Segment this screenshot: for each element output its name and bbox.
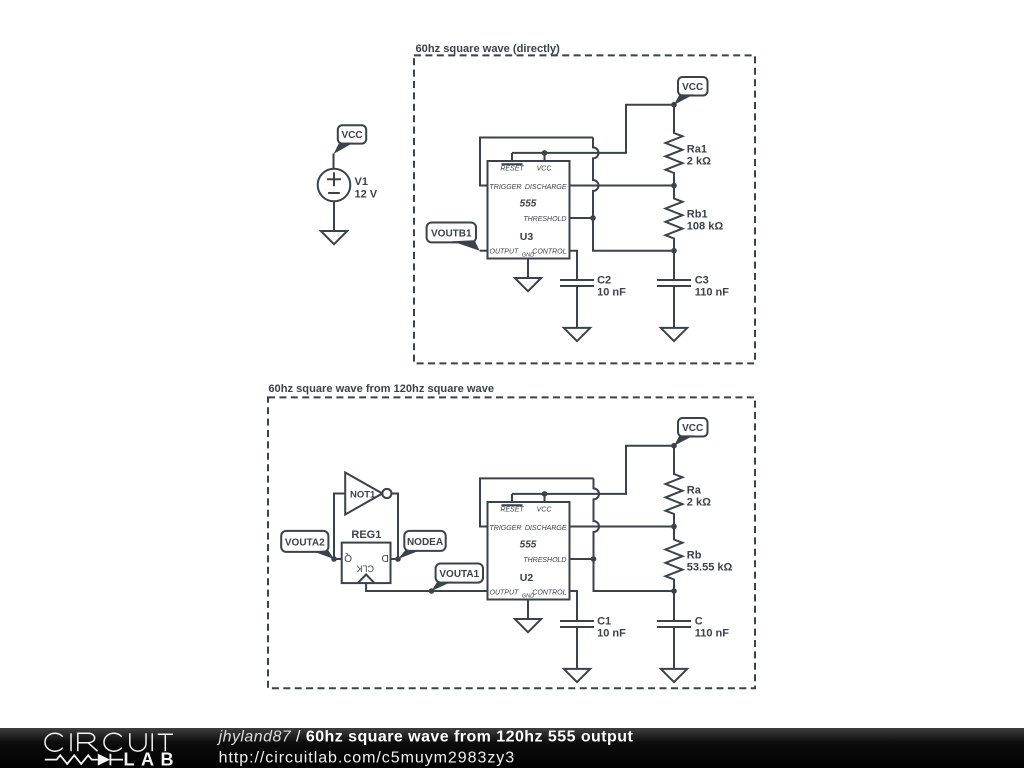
capacitor C bbox=[657, 591, 691, 669]
junction node Ra/Rb/discharge bbox=[671, 524, 677, 530]
wire: CONTROL to C2 bbox=[570, 251, 578, 280]
chip U2 555 timer body bbox=[488, 502, 570, 600]
svg-text:60hz square wave (directly): 60hz square wave (directly) bbox=[416, 43, 561, 55]
svg-text:Ra: Ra bbox=[687, 484, 702, 496]
junction node at VCC flag (bottom) bbox=[671, 443, 677, 449]
svg-text:VOUTA1: VOUTA1 bbox=[439, 569, 479, 580]
svg-text:Rb1: Rb1 bbox=[687, 208, 708, 220]
svg-text:53.55 kΩ: 53.55 kΩ bbox=[687, 562, 733, 574]
svg-text:NODEA: NODEA bbox=[407, 537, 443, 548]
net flag VCC (top right) bbox=[678, 77, 708, 96]
svg-text:OUTPUT: OUTPUT bbox=[490, 589, 520, 596]
svg-text:jhyland87 / 60hz square wave f: jhyland87 / 60hz square wave from 120hz … bbox=[217, 729, 634, 746]
junction node REG1 Q / NOT1 in bbox=[331, 556, 337, 562]
flip-flop REG1 body (rotated) bbox=[342, 543, 391, 584]
ground (U3 GND) bbox=[515, 278, 541, 291]
wire: NOT1 output to REG1 D bbox=[391, 494, 399, 560]
capacitor C3 bbox=[657, 251, 691, 328]
dashed section border (top) bbox=[414, 55, 755, 363]
svg-text:VCC: VCC bbox=[682, 423, 703, 434]
wire: TRIGGER loop U2 (with hops) bbox=[480, 478, 674, 591]
CircuitLab logo wordmark (thin stroked letters) bbox=[45, 733, 173, 751]
inverter NOT1 bbox=[345, 473, 382, 515]
junction node threshold bbox=[590, 215, 596, 221]
wire: NOT1 input from REG1 Q bbox=[334, 494, 345, 560]
wire: REG1 CLK to U2 OUTPUT bbox=[366, 583, 487, 591]
voltage source V1 12V bbox=[318, 169, 351, 202]
wire: V1 to ground bbox=[333, 201, 335, 231]
svg-text:CLK: CLK bbox=[356, 563, 374, 573]
junction node threshold (U2) bbox=[591, 556, 597, 562]
svg-text:VCC: VCC bbox=[537, 166, 553, 173]
svg-text:Rb: Rb bbox=[687, 549, 702, 561]
capacitor C2 bbox=[560, 280, 594, 328]
ground (U2 GND) bbox=[515, 619, 541, 632]
net flag NODEA bbox=[404, 531, 445, 551]
net flag VOUTA1 bbox=[436, 564, 483, 583]
wire: TRIGGER loop (trigger pin up and over to threshold net, with hops) bbox=[480, 138, 674, 251]
svg-text:108 kΩ: 108 kΩ bbox=[687, 221, 724, 233]
net flag VCC (bottom right) bbox=[678, 418, 708, 437]
svg-text:DISCHARGE: DISCHARGE bbox=[525, 525, 567, 532]
svg-text:REG1: REG1 bbox=[351, 529, 381, 541]
svg-text:VCC: VCC bbox=[537, 507, 553, 514]
svg-text:THRESHOLD: THRESHOLD bbox=[523, 216, 566, 223]
svg-text:12 V: 12 V bbox=[355, 188, 378, 200]
wire: THRESHOLD to vertical net bbox=[570, 217, 594, 219]
resistor Rb1 bbox=[666, 186, 683, 251]
junction node REG1 D / NOT1 out bbox=[395, 556, 401, 562]
svg-text:C2: C2 bbox=[597, 275, 611, 287]
resistor Rb bbox=[666, 527, 683, 592]
svg-text:VCC: VCC bbox=[341, 130, 362, 141]
svg-text:2 kΩ: 2 kΩ bbox=[687, 156, 711, 168]
wire: CONTROL to C1 bbox=[570, 591, 578, 621]
junction node at chip VCC pin bbox=[542, 150, 548, 156]
ground (C2) bbox=[564, 328, 590, 341]
svg-text:60hz square wave from 120hz sq: 60hz square wave from 120hz square wave bbox=[268, 383, 494, 395]
junction node Rb bottom / C bbox=[671, 588, 677, 594]
svg-text:OUTPUT: OUTPUT bbox=[490, 248, 520, 255]
svg-text:RESET: RESET bbox=[500, 507, 524, 514]
svg-text:2 kΩ: 2 kΩ bbox=[687, 497, 711, 509]
net flag VOUTB1 bbox=[427, 223, 476, 243]
svg-text:VOUTA2: VOUTA2 bbox=[285, 537, 325, 548]
svg-text:D: D bbox=[382, 552, 389, 563]
junction node at U2 VCC pin bbox=[542, 491, 548, 497]
ground (C) bbox=[661, 669, 687, 682]
wire: GND pin bbox=[527, 259, 529, 279]
wire: DISCHARGE (U2) bbox=[570, 526, 675, 528]
svg-text:555: 555 bbox=[520, 540, 537, 551]
junction node Ra1/Rb1/discharge bbox=[671, 183, 677, 189]
footer bar bbox=[0, 728, 1024, 768]
svg-text:V1: V1 bbox=[355, 176, 368, 188]
svg-text:C: C bbox=[695, 616, 703, 628]
svg-text:TRIGGER: TRIGGER bbox=[490, 184, 522, 191]
logo resistor+diode glyph bbox=[45, 754, 123, 766]
REG1 clock edge marker bbox=[358, 575, 375, 584]
svg-text:Ra1: Ra1 bbox=[687, 143, 707, 155]
wire: DISCHARGE to resistor junction bbox=[570, 185, 675, 187]
wire: GND pin (U2) bbox=[527, 600, 529, 620]
svg-text:NOT1: NOT1 bbox=[350, 489, 376, 500]
wire: THRESHOLD (U2) bbox=[570, 558, 594, 560]
net flag VCC (V1) bbox=[338, 125, 366, 143]
op-amp/chip U3 555 timer body bbox=[488, 161, 570, 259]
resistor Ra bbox=[666, 446, 683, 527]
junction node Rb1 bottom / C3 bbox=[671, 248, 677, 254]
svg-text:U2: U2 bbox=[520, 572, 534, 584]
svg-text:VOUTB1: VOUTB1 bbox=[431, 228, 472, 239]
svg-text:CONTROL: CONTROL bbox=[532, 589, 566, 596]
resistor Ra1 bbox=[666, 105, 683, 186]
svg-text:http://circuitlab.com/c5muym29: http://circuitlab.com/c5muym2983zy3 bbox=[219, 750, 515, 767]
svg-text:C1: C1 bbox=[597, 616, 611, 628]
junction node VOUTA1 bbox=[429, 588, 435, 594]
ground (C3) bbox=[661, 328, 687, 341]
svg-text:Q: Q bbox=[344, 552, 352, 563]
ground (C1) bbox=[564, 669, 590, 682]
svg-text:LAB: LAB bbox=[124, 750, 181, 768]
svg-text:U3: U3 bbox=[520, 231, 534, 243]
wire: VCC flag to V1 bbox=[333, 154, 335, 169]
wire: VCC distribution to RESET and VCC pins bbox=[512, 105, 674, 161]
junction node at VCC flag bbox=[671, 102, 677, 108]
dashed section border (bottom) bbox=[268, 397, 755, 688]
wire: VCC distribution to RESET and VCC pins (U2) bbox=[512, 446, 674, 502]
svg-text:TRIGGER: TRIGGER bbox=[490, 525, 522, 532]
svg-text:110 nF: 110 nF bbox=[695, 287, 730, 299]
svg-text:VCC: VCC bbox=[682, 82, 703, 93]
svg-text:DISCHARGE: DISCHARGE bbox=[525, 184, 567, 191]
svg-text:RESET: RESET bbox=[500, 166, 524, 173]
svg-text:C3: C3 bbox=[695, 275, 709, 287]
net flag VOUTA2 bbox=[281, 531, 328, 552]
wire: OUTPUT pin stub bbox=[480, 250, 488, 252]
svg-text:THRESHOLD: THRESHOLD bbox=[523, 557, 566, 564]
svg-text:110 nF: 110 nF bbox=[695, 628, 730, 640]
ground (V1) bbox=[321, 231, 347, 244]
svg-text:10 nF: 10 nF bbox=[597, 628, 626, 640]
svg-text:555: 555 bbox=[520, 199, 537, 210]
svg-text:10 nF: 10 nF bbox=[597, 287, 626, 299]
svg-text:CONTROL: CONTROL bbox=[532, 248, 566, 255]
capacitor C1 bbox=[560, 621, 594, 669]
